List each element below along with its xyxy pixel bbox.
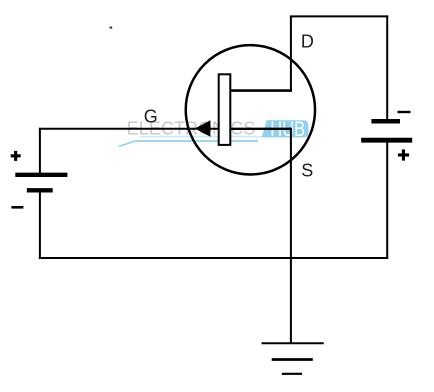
wire: drain vertical (JFET drain up to top rail) <box>290 16 292 91</box>
svg-text:S: S <box>301 161 313 181</box>
transistor Q1 gate arrow <box>195 120 211 136</box>
wire: source vertical (JFET source down to ground) <box>290 129 292 344</box>
label: plus terminal of V2 <box>398 149 409 160</box>
svg-text:D: D <box>301 32 314 52</box>
wire: left lower (battery negative to bottom rail) <box>39 190 41 259</box>
wire: gate (left rail to JFET gate bar) <box>39 128 219 130</box>
transistor Q1 source lead <box>230 128 292 130</box>
wire: right upper (top rail down to battery negative) <box>386 15 388 120</box>
transistor Q1 body circle <box>186 45 315 174</box>
wire: left upper (gate corner down to battery positive) <box>39 128 41 173</box>
wire: bottom rail <box>39 257 388 259</box>
battery V1 (left, VGG) <box>15 175 67 191</box>
wire: top rail (drain to right battery) <box>290 15 388 17</box>
ground <box>262 343 324 374</box>
watermark Electronics Hub <box>119 117 308 146</box>
wire: right lower (battery positive to bottom rail) <box>386 141 388 259</box>
label: plus terminal of V1 <box>11 151 21 161</box>
svg-text:G: G <box>144 107 158 127</box>
label: minus terminal of V2 <box>398 111 411 113</box>
battery V2 (right, VDD) <box>361 121 412 140</box>
transistor Q1 drain lead <box>230 89 292 92</box>
transistor Q1 channel bar <box>219 74 231 145</box>
label: minus terminal of V1 <box>11 206 23 209</box>
